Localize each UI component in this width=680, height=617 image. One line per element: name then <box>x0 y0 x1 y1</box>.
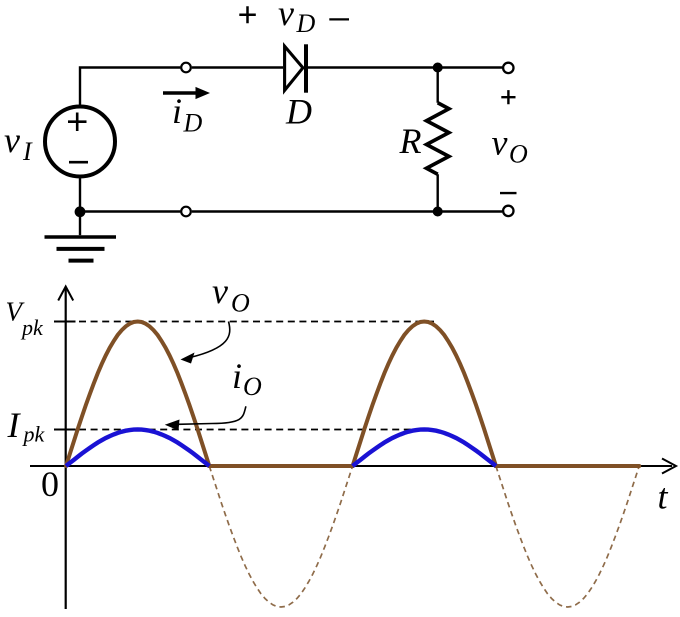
svg-text:t: t <box>658 477 669 517</box>
source plus sign <box>68 113 87 132</box>
iO rectified current waveform hump 1 (blue) <box>66 430 209 467</box>
horizontal axis t <box>30 459 676 474</box>
svg-text:R: R <box>399 121 422 161</box>
svg-text:v: v <box>212 271 228 311</box>
junction node B (resistor top) <box>433 63 443 73</box>
pointer arrow from vO label to brown curve <box>181 322 230 364</box>
svg-text:O: O <box>509 140 528 169</box>
svg-text:v: v <box>4 120 20 160</box>
terminal + output (open circle, top right) <box>503 63 513 73</box>
terminal node A (open circle, top left) <box>181 63 191 73</box>
iO rectified current waveform hump 2 (blue) <box>353 430 496 467</box>
svg-text:I: I <box>22 137 33 166</box>
svg-text:0: 0 <box>41 464 59 504</box>
wire ground node down to ground symbol <box>79 212 81 236</box>
vertical axis (v,i) <box>58 287 73 610</box>
terminal - output (open circle, bottom right) <box>503 206 513 216</box>
resistor R zigzag <box>427 103 449 175</box>
svg-text:i: i <box>232 356 242 396</box>
diode D cathode bar <box>304 44 308 92</box>
resistor R leads <box>437 68 439 212</box>
svg-text:O: O <box>243 372 262 401</box>
Ipk dashed level line <box>79 429 428 431</box>
Vpk dashed level line <box>79 321 437 323</box>
svg-text:i: i <box>172 91 182 131</box>
svg-text:v: v <box>492 123 508 163</box>
source minus sign <box>69 161 88 164</box>
label + vD - above diode <box>239 0 349 38</box>
dashed negative half-cycle 1 of input sine <box>209 466 352 607</box>
ground symbol <box>45 237 117 261</box>
svg-text:D: D <box>183 109 203 138</box>
svg-text:pk: pk <box>20 315 44 340</box>
svg-text:D: D <box>296 9 316 38</box>
Ipk tick <box>54 429 76 431</box>
wire source bottom to ground node <box>79 179 81 212</box>
wire ground node to terminal <box>80 210 180 212</box>
svg-text:v: v <box>278 0 294 33</box>
Vpk tick <box>54 321 76 323</box>
diode D symbol (anode triangle) <box>285 46 303 90</box>
current arrow iD <box>163 87 210 99</box>
label + vO - at output <box>492 90 529 193</box>
pointer arrow from iO label to blue curve <box>165 406 246 430</box>
wire node A to diode anode <box>192 66 283 68</box>
dashed negative half-cycle 2 of input sine <box>496 466 639 607</box>
terminal (open circle, bottom left) <box>181 207 191 217</box>
svg-text:O: O <box>231 289 250 318</box>
wire from source top to node A corner <box>80 68 180 107</box>
junction dot ground node <box>75 206 86 217</box>
wire diode cathode to node B <box>308 66 502 68</box>
svg-text:pk: pk <box>22 422 46 447</box>
bottom wire to output terminal <box>192 210 503 212</box>
vO rectified waveform (brown) <box>66 322 639 467</box>
svg-text:D: D <box>285 92 312 132</box>
junction node C (resistor bottom) <box>433 207 443 217</box>
svg-text:I: I <box>7 405 22 445</box>
voltage source vI circle <box>45 107 115 177</box>
